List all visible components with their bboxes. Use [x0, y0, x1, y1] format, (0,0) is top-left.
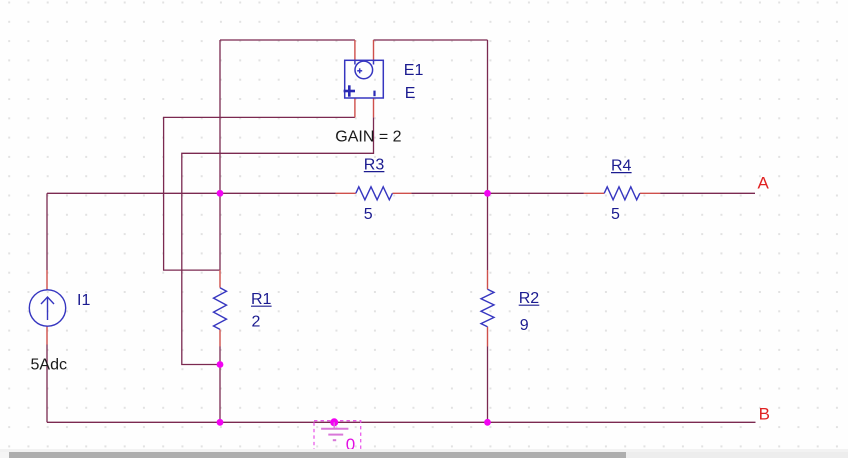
label E1 value: [405, 85, 416, 102]
resistor R2: [481, 289, 494, 326]
pin E1 top-right: [373, 40, 375, 60]
node A label: [758, 174, 770, 193]
wire middle bus left: [47, 192, 336, 194]
pin R3 left: [335, 192, 355, 194]
resistor R3: [356, 187, 393, 200]
wire middle bus right to node A: [660, 192, 755, 194]
label R3 ref: [364, 156, 385, 173]
label I1 ref: [77, 292, 90, 309]
wire E1 plus output net: [164, 117, 355, 270]
wire vertical node right (x=487.5) upper: [487, 40, 489, 270]
svg-text:A: A: [758, 174, 770, 193]
pin E1 top-left: [354, 40, 356, 60]
svg-text:I1: I1: [77, 292, 90, 309]
pin R2 bottom: [487, 327, 489, 347]
svg-text:R3: R3: [364, 156, 385, 173]
label R3 value: [364, 206, 373, 223]
svg-text:5: 5: [364, 206, 373, 223]
label I1 value 5Adc: [31, 357, 67, 374]
svg-text:R2: R2: [519, 290, 540, 307]
pin R4 left: [584, 192, 604, 194]
junction node bottom-right: [484, 419, 491, 426]
pin I1 top: [46, 270, 48, 290]
svg-text:E1: E1: [404, 62, 424, 79]
junction node bottom-left: [217, 419, 224, 426]
label R1 value: [252, 313, 261, 330]
label R4 value: [611, 206, 620, 223]
label R2 value: [520, 317, 529, 334]
wire middle bus center: [411, 192, 584, 194]
label E1 ref: [404, 62, 424, 79]
junction node E1 feedback: [217, 361, 224, 368]
wire left rail lower: [46, 344, 48, 422]
resistor R4: [604, 187, 640, 200]
wire left rail upper: [46, 193, 48, 270]
current source I1: [29, 290, 65, 326]
wire top-left segment: [220, 39, 355, 41]
label GAIN = 2: [335, 129, 401, 146]
scrollbar track: [0, 449, 848, 458]
junction node middle-left: [217, 190, 224, 197]
pin I1 bottom: [46, 326, 48, 344]
resistor R1: [214, 288, 227, 330]
svg-text:GAIN = 2: GAIN = 2: [335, 129, 401, 146]
pin R2 top: [487, 270, 489, 289]
wire vertical node right (x=487.5) lower: [487, 346, 489, 422]
pin R4 right: [640, 192, 660, 194]
svg-text:5: 5: [611, 206, 620, 223]
wire top-right segment: [374, 39, 488, 41]
op-amp dependent source E1: [345, 60, 384, 98]
svg-text:5Adc: 5Adc: [31, 357, 67, 374]
wire E1 minus output net: [182, 117, 374, 364]
pin R3 right: [392, 192, 411, 194]
pin E1 bottom-right: [373, 98, 375, 117]
E1 plus mark: [344, 85, 355, 96]
svg-text:R1: R1: [251, 291, 272, 308]
wire bottom bus to node B: [47, 421, 756, 423]
scrollbar thumb: [0, 452, 626, 458]
ground 0 symbol: [314, 418, 361, 454]
label R2 ref: [519, 290, 540, 307]
svg-text:E: E: [405, 85, 416, 102]
wire vertical node left (x=220) lower: [219, 346, 221, 422]
svg-text:R4: R4: [611, 157, 632, 174]
label R1 ref: [251, 291, 272, 308]
pin R1 bottom: [219, 329, 221, 346]
svg-text:2: 2: [252, 313, 261, 330]
svg-text:B: B: [759, 404, 770, 423]
pin R1 top: [219, 270, 221, 288]
svg-text:9: 9: [520, 317, 529, 334]
node B label: [759, 404, 770, 423]
E1 minus mark: [373, 91, 375, 97]
wire vertical node left (x=220) upper: [219, 40, 221, 270]
pin E1 bottom-left: [354, 98, 356, 117]
junction node middle-right: [484, 190, 491, 197]
label R4 ref: [611, 157, 632, 174]
